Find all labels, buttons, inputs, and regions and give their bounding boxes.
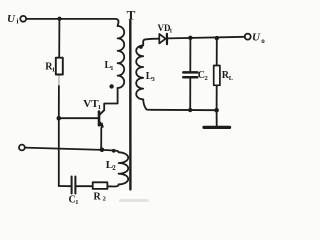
svg-text:R: R <box>94 191 102 202</box>
svg-text:1: 1 <box>110 65 113 72</box>
svg-text:2: 2 <box>103 196 106 203</box>
svg-text:2: 2 <box>205 75 208 82</box>
svg-text:T: T <box>127 7 136 22</box>
svg-text:L: L <box>229 75 234 82</box>
svg-text:U: U <box>252 32 261 44</box>
svg-text:2: 2 <box>112 164 116 172</box>
svg-text:i: i <box>17 18 19 26</box>
svg-text:1: 1 <box>52 66 55 73</box>
svg-text:1: 1 <box>98 104 101 111</box>
svg-text:1: 1 <box>169 29 172 35</box>
svg-text:o: o <box>261 37 265 45</box>
svg-text:U: U <box>7 13 16 25</box>
svg-text:1: 1 <box>75 199 78 204</box>
